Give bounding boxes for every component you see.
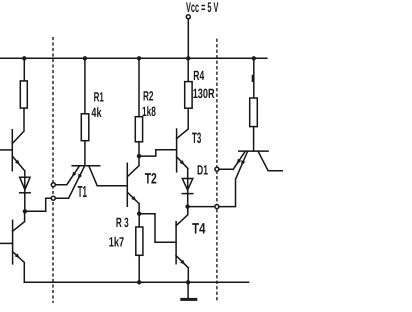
- svg-text:T4: T4: [192, 221, 206, 238]
- svg-text:130R: 130R: [193, 86, 215, 101]
- wire R3 top: [138, 214, 140, 227]
- svg-text:T2: T2: [145, 170, 157, 187]
- node input B terminal: [51, 196, 55, 200]
- transistor Q6 (next stage input): [239, 150, 268, 152]
- resistor R2: [135, 117, 142, 142]
- wire T3 emitter: [177, 157, 188, 169]
- svg-text:R 3: R 3: [116, 215, 129, 230]
- wire top supply rail: [0, 57, 267, 59]
- node rail junction 5: [252, 56, 256, 60]
- node gate1 output junction: [23, 209, 27, 213]
- wire Vcc lead: [187, 19, 189, 58]
- wire Q2 base lead: [0, 242, 12, 244]
- wire T2 collector: [127, 156, 139, 177]
- node R3 ground junction: [137, 280, 141, 284]
- wire Q2 emitter: [13, 252, 25, 263]
- wire Q1 emitter: [12, 156, 24, 171]
- wire T1 collector to T2 base: [89, 166, 128, 186]
- svg-text:T3: T3: [192, 130, 201, 147]
- diode left level-shift: [20, 177, 30, 190]
- wire R2 to node: [138, 142, 140, 156]
- wire R1 drop: [84, 58, 86, 114]
- wire left column drop: [23, 58, 25, 81]
- transistor T4 (totem bottom): [175, 222, 177, 264]
- svg-text:4k: 4k: [91, 105, 101, 120]
- node input C terminal: [215, 167, 219, 171]
- wire output to Q6 emitter 2: [219, 151, 248, 206]
- wire T2 emitter to T4 base: [139, 214, 176, 243]
- resistor R3: [136, 227, 143, 255]
- wire R4 to T3 collector: [177, 108, 189, 138]
- wire output to boundary: [188, 206, 215, 208]
- svg-text:R2: R2: [143, 89, 154, 104]
- resistor left (output pull): [20, 81, 27, 108]
- svg-text:T1: T1: [78, 184, 87, 201]
- svg-text:1k7: 1k7: [109, 234, 124, 249]
- wire resistor to Q1 collector: [12, 108, 24, 144]
- terminal Vcc: [186, 15, 190, 19]
- wire input C to Q6 emitter 1: [219, 151, 245, 169]
- node rail junction 1: [22, 56, 26, 60]
- wire R4 drop: [187, 58, 189, 81]
- wire bottom ground rail: [24, 281, 248, 283]
- svg-text:R4: R4: [193, 68, 204, 83]
- node rail junction 2: [83, 56, 87, 60]
- wire T4 collector: [176, 207, 188, 226]
- wire gate1 output to input circle: [25, 198, 51, 211]
- svg-text:Vcc = 5 V: Vcc = 5 V: [186, 0, 219, 15]
- svg-text:D1: D1: [197, 162, 208, 177]
- wire jog mark: [252, 76, 254, 81]
- transistor Q2 (lower left): [12, 220, 14, 264]
- transistor T2 (phase splitter): [126, 163, 128, 206]
- wire T1 emitter 1: [55, 166, 79, 185]
- boundary dotted line 1: [52, 38, 54, 303]
- wire R2 drop: [138, 58, 140, 116]
- resistor R4: [185, 82, 192, 109]
- wire R1 to T1 base: [84, 141, 86, 166]
- wire R5 to Q6 base: [253, 127, 255, 152]
- wire node to T3 base: [139, 150, 177, 156]
- wire T1 emitter 2: [55, 166, 84, 198]
- node rail junction 4: [186, 56, 190, 60]
- node T2 emitter junction: [137, 212, 141, 216]
- svg-text:1k8: 1k8: [142, 104, 156, 119]
- transistor T1 (multi-emitter input): [72, 165, 100, 167]
- wire R5 drop: [253, 58, 255, 98]
- wire Q6 collector: [258, 151, 282, 171]
- transistor T3 (totem top): [176, 129, 178, 172]
- node ground junction: [186, 280, 190, 284]
- node gate2 output junction: [185, 204, 189, 208]
- resistor right base pull: [250, 98, 258, 127]
- wire Q1 base lead: [0, 149, 12, 151]
- node rail junction 3: [137, 56, 141, 60]
- transistor Q1 (upper left): [11, 130, 13, 171]
- wire diode to node: [24, 171, 26, 212]
- wire T4 emitter: [176, 256, 188, 268]
- wire Q2 collector: [13, 211, 25, 231]
- wire T2 emitter: [127, 192, 139, 203]
- node output terminal: [215, 205, 219, 209]
- wire R3 bottom: [138, 255, 140, 282]
- diode D1: [182, 179, 193, 191]
- resistor R1: [81, 114, 89, 141]
- node T2 collector junction: [137, 154, 141, 158]
- node input A terminal: [51, 183, 55, 187]
- svg-text:R1: R1: [94, 89, 104, 104]
- ground: [187, 282, 189, 298]
- boundary dotted line 2: [216, 39, 218, 302]
